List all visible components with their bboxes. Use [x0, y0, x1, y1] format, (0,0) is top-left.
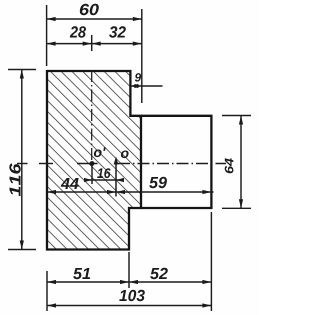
vertical center line at x=91.7 (28 offset axis) [91, 70, 93, 161]
value 44 [61, 178, 79, 189]
label o' [94, 147, 106, 157]
value 16 [97, 168, 110, 178]
label o [121, 151, 129, 159]
horizontal center line through o' and o [17, 163, 28, 165]
dimension 28/32 line [47, 43, 142, 45]
dimension 103 line [47, 305, 211, 307]
dimension 60 line [47, 18, 142, 20]
value 32 [109, 26, 126, 37]
value 116 [9, 163, 20, 196]
node o' : dot marker and bar [77, 163, 98, 165]
value 51 [73, 268, 90, 279]
value 28 [70, 26, 86, 37]
right plate outline [141, 116, 211, 208]
node o : vertical axis with up arrow [115, 160, 117, 197]
dimension 9 line [130, 85, 162, 87]
left extension lines for 116 [8, 69, 36, 71]
hatched section body [47, 71, 141, 250]
value 9 [135, 73, 141, 82]
mid extension tick x=91.7 [91, 35, 93, 51]
dimension 116 line [21, 70, 23, 250]
dimension 64 line [240, 116, 242, 209]
bottom extension lines [46, 271, 48, 311]
value 52 [150, 268, 168, 279]
top extension line right x=141.8 [141, 9, 143, 103]
value 103 [119, 290, 145, 301]
dimension 44/59 line [47, 191, 214, 193]
top extension line left x=46.6 [46, 5, 48, 66]
dimension 51/52 line [47, 281, 211, 283]
dimension 16 line [85, 179, 123, 181]
value 64 [225, 158, 234, 173]
value 59 [149, 177, 167, 188]
value 60 [80, 4, 99, 15]
right extension lines for 64 [222, 115, 251, 117]
